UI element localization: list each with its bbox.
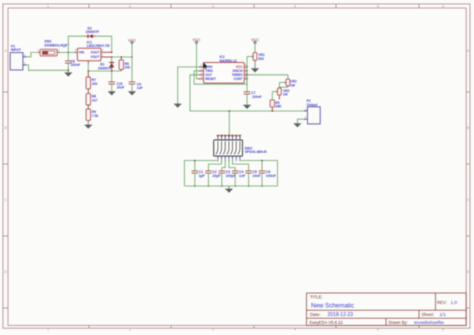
svg-text:100nF: 100nF [71, 63, 81, 67]
svg-text:DSWB01LHQET: DSWB01LHQET [44, 43, 69, 47]
svg-text:TITLE:: TITLE: [310, 295, 323, 300]
wire TRIG wrap to THRES [194, 71, 247, 84]
svg-text:1: 1 [47, 4, 49, 8]
potentiometer VR3 [278, 88, 282, 95]
cap bank ground bus [184, 185, 277, 187]
svg-text:Date:: Date: [310, 312, 321, 317]
svg-text:13: 13 [227, 133, 231, 137]
svg-text:16: 16 [216, 133, 220, 137]
ground below C9 [131, 90, 133, 93]
wire C6 top [261, 161, 263, 172]
svg-text:1nF: 1nF [239, 174, 246, 178]
svg-text:10pF: 10pF [212, 174, 221, 178]
svg-text:10nF: 10nF [252, 174, 261, 178]
junction node VIN/C8/D2 [68, 52, 70, 54]
wire ADJ down [87, 64, 89, 71]
svg-text:7.5k: 7.5k [92, 114, 99, 118]
svg-text:1uF: 1uF [137, 86, 143, 90]
timer IC2 NA555 [204, 63, 245, 84]
svg-text:6: 6 [442, 328, 444, 332]
svg-text:500: 500 [258, 57, 264, 61]
svg-text:1N4007F: 1N4007F [86, 30, 100, 34]
wire SW2 pin4 to C4 [229, 159, 235, 171]
resistor R9 [87, 105, 89, 109]
svg-text:4: 4 [294, 328, 296, 332]
ground for IC2 GND [177, 102, 179, 105]
svg-text:3: 3 [212, 4, 214, 8]
svg-text:New Schematic: New Schematic [311, 303, 354, 310]
regulator U1 LM317 [75, 51, 78, 53]
svg-text:VCC: VCC [128, 38, 136, 42]
svg-text:11: 11 [235, 133, 238, 137]
svg-text:DISCH: DISCH [233, 69, 244, 73]
wire OUT down to output bus [190, 75, 305, 111]
ground below cap bank [228, 186, 230, 189]
wire SW1 to U1 VIN [60, 51, 74, 53]
wire SW2 pin2 to C2 [208, 159, 221, 171]
SW2 top pins [217, 136, 219, 140]
frame column ticks and numbers [88, 4, 90, 8]
svg-text:1pF: 1pF [199, 174, 206, 178]
ground below C8 [67, 70, 69, 72]
svg-text:1M: 1M [290, 83, 295, 87]
wire D2 loop right [96, 36, 112, 52]
ground below R9 [87, 120, 89, 124]
capacitor C7 [246, 75, 248, 92]
wire VCC to RESET [197, 44, 200, 79]
wire SW2 pin7 loop right [240, 159, 278, 186]
resistor R6 [120, 57, 122, 60]
svg-text:39K: 39K [275, 105, 282, 109]
wire ADJ rail [88, 70, 121, 72]
svg-text:THRES: THRES [232, 73, 243, 77]
svg-text:6: 6 [442, 4, 444, 8]
resistor R7 [86, 77, 90, 89]
svg-text:1/1: 1/1 [440, 312, 447, 317]
potentiometer VR1 [253, 53, 257, 61]
wire P1 pin1 to ground rail [26, 65, 69, 70]
wire P1 pin2 to SW1 [26, 52, 38, 56]
svg-text:4: 4 [294, 4, 296, 8]
svg-text:Sheet:: Sheet: [422, 312, 435, 317]
svg-text:2: 2 [129, 328, 131, 332]
SW2 switch elements [217, 141, 219, 146]
wire SW2 pin3 to C3 [222, 159, 225, 171]
svg-text:5: 5 [377, 328, 379, 332]
connector P2 [308, 107, 321, 124]
svg-text:10uF: 10uF [117, 85, 125, 89]
wire D2 loop left [68, 36, 85, 52]
diode D2 [85, 35, 88, 37]
U1 ADJ pin [87, 61, 89, 64]
svg-text:1k7: 1k7 [92, 98, 98, 102]
resistor R5 [270, 100, 274, 107]
wire SW2 pin6 stub [235, 159, 237, 161]
wire C1 top [194, 161, 196, 172]
svg-text:TRIG: TRIG [205, 69, 213, 73]
wire VR2 wiper/bottom to VR3 [278, 82, 280, 88]
svg-text:1.0: 1.0 [451, 300, 458, 305]
wire THRES to VR2 [247, 75, 288, 79]
svg-text:VOUT: VOUT [90, 55, 99, 59]
svg-text:100nF: 100nF [252, 95, 262, 99]
svg-text:Output: Output [307, 103, 319, 107]
svg-text:14: 14 [224, 133, 228, 137]
wire VOUT pin2 to VCC node [104, 56, 112, 58]
diode D1 [111, 57, 113, 63]
svg-text:15: 15 [220, 133, 224, 137]
svg-text:2: 2 [129, 4, 131, 8]
wire P2 pin2 to ground [297, 119, 304, 122]
svg-text:LM317MDT-TR: LM317MDT-TR [87, 44, 110, 48]
capacitor C10 [111, 71, 113, 82]
mouse cursor [203, 62, 207, 69]
svg-text:200: 200 [92, 82, 98, 86]
svg-text:B: B [467, 126, 469, 130]
wire VR3 wiper to R5 [271, 92, 273, 100]
svg-text:REV:: REV: [437, 300, 447, 305]
switch SW1 [38, 51, 40, 53]
svg-text:D1: D1 [100, 63, 104, 67]
svg-text:VOUT: VOUT [90, 51, 99, 55]
svg-text:RESET: RESET [205, 77, 216, 81]
svg-text:12: 12 [231, 133, 235, 137]
ground below C7 [246, 103, 248, 105]
SW2 top bus [218, 135, 240, 137]
capacitor C1 [192, 170, 199, 172]
rotary switch SW2 body [214, 140, 243, 156]
svg-text:1: 1 [47, 328, 49, 332]
ground below C10 [111, 90, 113, 93]
svg-text:Drawn By:: Drawn By: [389, 320, 408, 325]
wire SW2 pin1 loop left [184, 159, 218, 186]
capacitor C5 [245, 170, 252, 172]
capacitor C6 [259, 170, 266, 172]
svg-text:VCC: VCC [236, 65, 243, 69]
capacitor C8 [67, 52, 69, 61]
ground below VR1 [254, 60, 256, 68]
wire VOUT pin4 [104, 51, 112, 53]
svg-text:VPG/S-38H-R: VPG/S-38H-R [245, 150, 267, 154]
svg-text:1M: 1M [283, 92, 288, 96]
SW2 bottom pins [217, 156, 219, 159]
wire VR1 wiper to DISCH/THRES [246, 57, 248, 75]
frame row ticks and letters [3, 91, 8, 93]
wire output bus down to SW2 [228, 111, 230, 136]
VR3 bottom stub [278, 95, 280, 99]
svg-text:100nF: 100nF [266, 174, 277, 178]
svg-text:EasyEDA V5.8.22: EasyEDA V5.8.22 [310, 320, 344, 325]
svg-text:snowbelowftw: snowbelowftw [414, 320, 444, 326]
potentiometer VR2 [286, 79, 290, 86]
svg-text:2018-12-23: 2018-12-23 [328, 312, 354, 318]
svg-text:INPUT: INPUT [11, 48, 21, 52]
svg-text:OUT: OUT [205, 73, 212, 77]
connector P1 [10, 53, 23, 70]
wire GND pin to ground [178, 67, 200, 103]
ground below P2 [296, 122, 298, 125]
svg-text:CONT: CONT [233, 77, 242, 81]
resistor R8 [87, 89, 89, 94]
svg-text:B: B [5, 126, 7, 130]
svg-text:VIN: VIN [79, 51, 85, 55]
capacitor C3 [219, 170, 226, 172]
svg-text:3: 3 [212, 328, 214, 332]
svg-text:1N4007F: 1N4007F [98, 67, 112, 71]
wire SW2 pin5 to C5 [233, 159, 249, 171]
capacitor C9 [131, 57, 133, 82]
svg-text:10: 10 [238, 133, 242, 137]
svg-text:240: 240 [125, 66, 131, 70]
title block [307, 293, 467, 325]
capacitor C4 [232, 170, 239, 172]
svg-text:5: 5 [377, 4, 379, 8]
capacitor C2 [205, 170, 212, 172]
